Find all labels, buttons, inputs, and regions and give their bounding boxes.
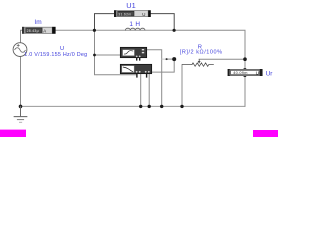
wire: scope tap to oscilloscope left terminal: [95, 54, 121, 56]
wire: faint link from scope drop to node D: [162, 58, 166, 60]
ammeter Im: [22, 27, 56, 34]
svg-text:[R]/2 kΩ/100%: [R]/2 kΩ/100%: [180, 50, 223, 56]
wire: node B to top-right corner, down to node C: [174, 30, 245, 59]
wire: voltmeter Ur bottom down to bottom rail corner: [244, 76, 246, 107]
node B junction dot: [173, 29, 176, 32]
svg-text:U1: U1: [126, 1, 135, 10]
wire: U1 branch left riser: [95, 14, 115, 31]
bottom rail junction dot OUT-: [148, 105, 151, 108]
wire: inductor right to node B: [125, 29, 174, 31]
wire: node A to inductor left: [95, 29, 126, 31]
wire: source top lead to ammeter: [21, 30, 23, 43]
bottom rail junction dot scope drop: [160, 105, 163, 108]
bottom rail junction dot IN-: [139, 105, 142, 108]
magenta marker left: [0, 130, 26, 137]
svg-text:U: U: [256, 71, 259, 76]
junction: small dot on link wire: [166, 58, 168, 60]
svg-text:31.62m: 31.62m: [118, 12, 131, 16]
wire: node C into voltmeter Ur top: [244, 59, 246, 69]
bottom rail junction dot at ground: [19, 105, 23, 109]
bottom rail junction dot pot lead: [180, 105, 183, 108]
wire: source bottom lead: [20, 57, 22, 107]
oscilloscope icon: [120, 47, 146, 60]
svg-text:Im: Im: [34, 19, 41, 26]
scope tap junction dot: [93, 54, 96, 57]
wire: bode plotter IN- down to bottom rail: [140, 74, 142, 107]
wire: potentiometer wiper to node C: [199, 58, 245, 60]
svg-text:A: A: [43, 29, 46, 34]
AC voltage source U: [13, 43, 27, 57]
node D junction dot: [172, 57, 176, 61]
bode plotter icon: [120, 64, 151, 77]
wire: node D down and left to bode plotter OUT: [152, 59, 175, 72]
magenta marker right: [253, 130, 278, 137]
wire: node A down to scope tap: [94, 30, 96, 55]
ground: [14, 106, 27, 122]
svg-text:1.0 V/159.155 Hz/0 Deg: 1.0 V/159.155 Hz/0 Deg: [24, 52, 87, 58]
svg-text:Ur: Ur: [266, 70, 274, 77]
wire: ammeter right to node A: [56, 29, 95, 31]
potentiometer R: [182, 59, 214, 66]
node A junction dot: [93, 29, 96, 32]
node C junction dot: [243, 57, 247, 61]
wire: bode plotter OUT- down to bottom rail: [148, 74, 150, 107]
wire: potentiometer left lead down to bottom rail: [181, 65, 183, 107]
svg-text:40.09m: 40.09m: [233, 71, 247, 75]
wire: link to node D: [166, 58, 174, 60]
voltmeter Ur: [228, 68, 263, 77]
svg-text:28.43µ: 28.43µ: [27, 29, 39, 33]
voltmeter U1: [114, 10, 151, 17]
inductor L 1H: [125, 28, 145, 30]
svg-text:1 H: 1 H: [129, 21, 140, 28]
wire: scope tap down and right to bode plotter IN+: [95, 55, 137, 75]
wire: oscilloscope right terminal over and down to bottom rail: [147, 50, 162, 107]
svg-text:U: U: [142, 12, 145, 17]
wire: bottom rail: [21, 105, 245, 107]
wire: U1 branch right riser: [151, 14, 174, 31]
